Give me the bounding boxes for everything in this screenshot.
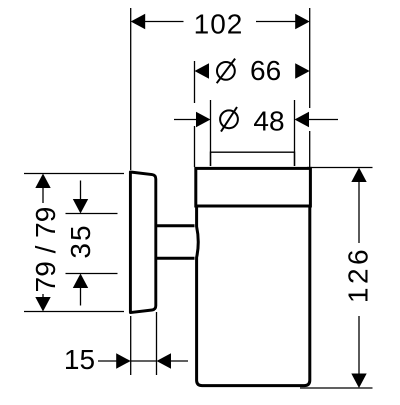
dimension 102 line segments <box>145 21 184 23</box>
mounting arm bottom edge <box>157 257 195 260</box>
dimension 15 left leader and arrow <box>98 360 117 362</box>
dimension 79/79 top arrow <box>35 174 50 189</box>
svg-text:15: 15 <box>64 344 95 375</box>
dimension 79/79 bottom extension line <box>24 311 124 313</box>
svg-text:126: 126 <box>343 246 374 303</box>
extension line right of dia48 <box>294 100 296 166</box>
dimension 126 top extension line <box>307 167 373 169</box>
dimension dia48 right leader <box>309 119 338 121</box>
extension line left of 102 (wall plane) <box>130 8 132 170</box>
dimension 79/79 top extension line <box>24 173 124 175</box>
svg-text:102: 102 <box>194 9 244 40</box>
dimension dia66 left arrow <box>195 63 210 78</box>
dimension 15 left extension line <box>130 316 132 375</box>
svg-text:66: 66 <box>250 55 281 86</box>
svg-text:35: 35 <box>65 223 96 258</box>
dimension 35 upper arrow pointing down <box>80 181 82 200</box>
dimension 126 bottom extension line <box>300 387 373 389</box>
dimension 15 right extension line <box>156 312 158 375</box>
glass rim above holder <box>211 152 295 166</box>
dimension 102 right arrow <box>295 14 310 29</box>
dimension 35 lower arrow pointing up <box>73 274 88 289</box>
dimension 15 middle segment <box>131 360 157 362</box>
extension line left of dia66 <box>194 61 196 103</box>
dimension 35 bottom extension line <box>66 273 118 275</box>
dimension 126 bottom arrow <box>351 374 366 389</box>
dia symbol of 66 <box>217 59 235 84</box>
holder ring <box>196 168 311 206</box>
mounting arm top edge <box>157 224 195 227</box>
svg-text:48: 48 <box>253 106 284 137</box>
dimension 79/79 bottom arrow <box>35 297 50 312</box>
cup body with arm boss bulge <box>197 207 310 386</box>
dimension 35 top extension line <box>66 213 118 215</box>
dimension dia48 right arrow <box>295 112 310 127</box>
dimension 102 left arrow <box>131 14 146 29</box>
dimension 126 top arrow <box>351 168 366 183</box>
dimension dia66 right arrow <box>295 63 310 78</box>
extension line right of 102/66 (cup front) <box>309 8 311 108</box>
dimension dia48 left leader <box>174 119 196 121</box>
extension line left of dia48 <box>210 100 212 166</box>
dia symbol of 48 <box>220 107 238 132</box>
svg-text:79 / 79: 79 / 79 <box>30 207 61 293</box>
dimension 15 right arrow and leader <box>157 353 172 368</box>
wall plate outline <box>130 172 155 313</box>
dimension dia48 left arrow <box>196 112 211 127</box>
